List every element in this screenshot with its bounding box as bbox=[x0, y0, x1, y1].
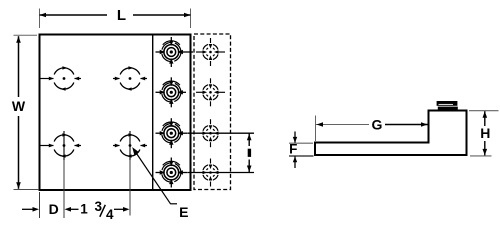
svg-text:1: 1 bbox=[80, 202, 88, 217]
svg-text:W: W bbox=[12, 98, 26, 114]
svg-text:L: L bbox=[117, 7, 126, 24]
svg-text:4: 4 bbox=[106, 207, 114, 222]
svg-text:H: H bbox=[480, 125, 490, 141]
svg-text:G: G bbox=[372, 116, 383, 132]
svg-text:E: E bbox=[179, 204, 188, 220]
svg-text:D: D bbox=[49, 201, 59, 217]
svg-text:F: F bbox=[289, 141, 297, 156]
